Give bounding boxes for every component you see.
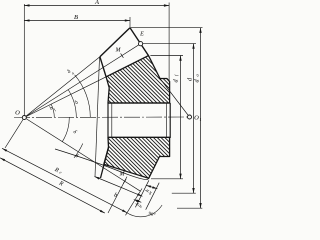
- svg-text:E: E: [139, 32, 144, 38]
- svg-text:A: A: [94, 0, 99, 6]
- svg-text:O: O: [194, 115, 199, 122]
- svg-text:1: 1: [199, 117, 201, 122]
- svg-text:O: O: [15, 110, 20, 117]
- svg-text:M: M: [119, 172, 126, 178]
- svg-text:M: M: [115, 48, 122, 54]
- svg-text:B: B: [74, 14, 78, 21]
